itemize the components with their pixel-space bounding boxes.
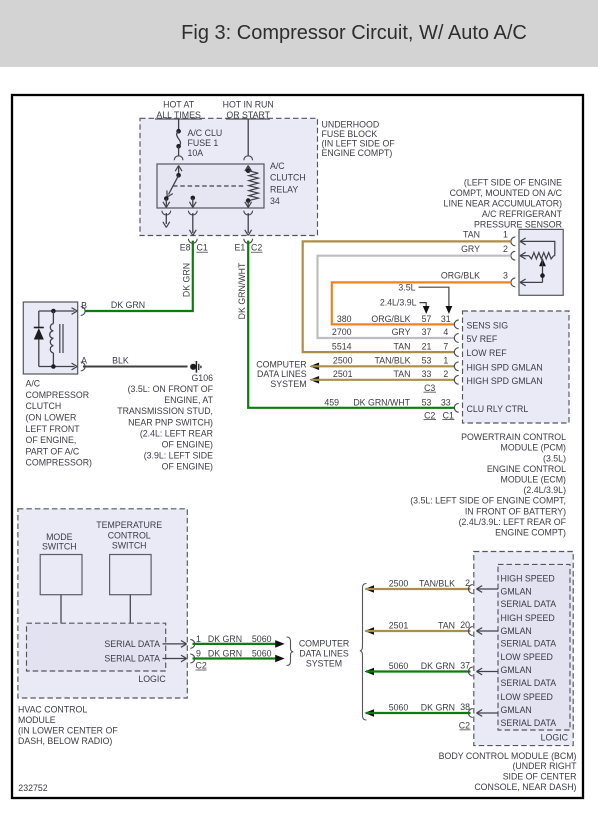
svg-text:BODY CONTROL MODULE (BCM): BODY CONTROL MODULE (BCM) xyxy=(439,751,577,761)
svg-text:1: 1 xyxy=(503,230,508,240)
svg-text:RELAY: RELAY xyxy=(270,184,298,194)
svg-text:(2.4L: LEFT REAR: (2.4L: LEFT REAR xyxy=(140,428,213,438)
sensor pin1 internal xyxy=(520,241,526,244)
relay NC stub wire xyxy=(165,213,167,224)
sensor resistor zigzag xyxy=(529,253,554,259)
svg-text:A/C: A/C xyxy=(26,379,41,389)
svg-text:5060: 5060 xyxy=(389,703,409,713)
connector cup bcm row 4 xyxy=(468,709,472,718)
svg-text:TAN: TAN xyxy=(438,621,455,631)
svg-text:HOT AT: HOT AT xyxy=(163,99,195,109)
svg-text:C2: C2 xyxy=(459,721,470,731)
A/C refrigerant pressure sensor box xyxy=(519,229,563,295)
svg-text:TAN/BLK: TAN/BLK xyxy=(374,356,410,366)
svg-text:ALL TIMES: ALL TIMES xyxy=(156,110,201,120)
diode CR1 xyxy=(34,327,44,329)
svg-text:34: 34 xyxy=(270,196,280,206)
svg-text:SWITCH: SWITCH xyxy=(42,542,77,552)
wire 5060 DK GRN bcm row 3 xyxy=(365,668,375,676)
connector cup hvac pin9 xyxy=(190,654,194,663)
svg-text:5514: 5514 xyxy=(332,341,352,351)
svg-text:BLK: BLK xyxy=(112,355,129,365)
svg-text:3: 3 xyxy=(503,271,508,281)
svg-text:DK GRN: DK GRN xyxy=(208,649,242,659)
svg-text:GMLAN: GMLAN xyxy=(501,665,532,675)
svg-text:OF ENGINE,: OF ENGINE, xyxy=(26,435,77,445)
svg-text:LOW REF: LOW REF xyxy=(467,348,508,358)
svg-text:2501: 2501 xyxy=(333,369,353,379)
relay coil bottom lead xyxy=(247,201,249,208)
svg-text:2700: 2700 xyxy=(332,327,352,337)
svg-text:33: 33 xyxy=(441,397,451,407)
svg-text:Fig 3: Compressor Circuit, W/: Fig 3: Compressor Circuit, W/ Auto A/C xyxy=(181,22,527,44)
svg-text:OF ENGINE): OF ENGINE) xyxy=(162,462,213,472)
title banner xyxy=(0,0,598,67)
bcm internal arrow row 4 xyxy=(477,713,483,716)
svg-text:CLUTCH: CLUTCH xyxy=(26,401,62,411)
svg-text:GMLAN: GMLAN xyxy=(501,705,532,715)
connector cup hvac pin1 xyxy=(190,640,194,649)
svg-text:37: 37 xyxy=(422,327,432,337)
connector cup sensor pin3 xyxy=(511,278,515,287)
relay switch common junction xyxy=(176,173,181,178)
svg-text:(3.9L: LEFT SIDE: (3.9L: LEFT SIDE xyxy=(144,451,213,461)
svg-text:PRESSURE SENSOR: PRESSURE SENSOR xyxy=(474,220,562,230)
svg-text:(3.5L: LEFT SIDE OF ENGINE COM: (3.5L: LEFT SIDE OF ENGINE COMPT, xyxy=(410,496,566,506)
svg-text:SERIAL DATA: SERIAL DATA xyxy=(501,718,557,728)
connector cup SENS SIG xyxy=(454,320,458,329)
relay box A/C CLUTCH RELAY 34 xyxy=(157,164,264,208)
svg-text:SERIAL DATA: SERIAL DATA xyxy=(501,599,557,609)
wire hot-at-all-times feed xyxy=(178,119,180,131)
svg-text:2500: 2500 xyxy=(333,356,353,366)
svg-text:GRY: GRY xyxy=(392,327,411,337)
connector cup HIGH SPD GMLAN 1 xyxy=(454,362,458,371)
svg-text:HIGH SPD GMLAN: HIGH SPD GMLAN xyxy=(467,376,543,386)
wire relay coil to E1 xyxy=(247,213,249,233)
wire ORG/BLK sensor to PCM xyxy=(332,282,511,324)
svg-text:FUSE BLOCK: FUSE BLOCK xyxy=(322,129,378,139)
sensor resistor xyxy=(520,256,526,259)
svg-text:IN FRONT OF BATTERY): IN FRONT OF BATTERY) xyxy=(465,506,566,516)
svg-text:POWERTRAIN CONTROL: POWERTRAIN CONTROL xyxy=(461,432,566,442)
svg-text:NEAR PNP SWITCH): NEAR PNP SWITCH) xyxy=(128,417,213,427)
svg-text:10A: 10A xyxy=(188,148,204,158)
underhood fuse block box xyxy=(140,118,318,235)
svg-text:HIGH SPEED: HIGH SPEED xyxy=(501,573,555,583)
clutch top junction xyxy=(51,309,56,314)
svg-text:SYSTEM: SYSTEM xyxy=(306,659,342,669)
svg-text:1: 1 xyxy=(196,634,201,644)
svg-text:(IN LEFT SIDE OF: (IN LEFT SIDE OF xyxy=(322,139,396,149)
wire TAN/BLK 2500 xyxy=(310,363,320,371)
svg-text:UNDERHOOD: UNDERHOOD xyxy=(322,120,380,130)
svg-text:CLU RLY CTRL: CLU RLY CTRL xyxy=(467,404,529,414)
svg-text:TAN: TAN xyxy=(463,230,480,240)
wire 5060 DK GRN bcm row 4 xyxy=(365,709,375,717)
svg-text:ORG/BLK: ORG/BLK xyxy=(371,314,410,324)
svg-text:COMPRESSOR: COMPRESSOR xyxy=(26,390,90,400)
svg-text:DASH, BELOW RADIO): DASH, BELOW RADIO) xyxy=(18,736,112,746)
svg-text:ENGINE CONTROL: ENGINE CONTROL xyxy=(487,464,566,474)
diode CR1 lead top xyxy=(38,311,40,328)
brace left bcm xyxy=(360,584,367,721)
sensor pin3 internal xyxy=(520,282,526,285)
svg-text:DK GRN/WHT: DK GRN/WHT xyxy=(237,262,247,319)
svg-text:2: 2 xyxy=(443,369,448,379)
relay NC contact lead xyxy=(165,199,167,208)
svg-text:DK GRN/WHT: DK GRN/WHT xyxy=(353,397,410,407)
relay coil top junction xyxy=(246,168,251,173)
connector cup sensor pin2 xyxy=(511,251,515,260)
svg-text:SERIAL DATA: SERIAL DATA xyxy=(501,678,557,688)
svg-text:ENGINE COMPT): ENGINE COMPT) xyxy=(322,148,393,158)
svg-text:C2: C2 xyxy=(196,661,207,671)
brace right hvac xyxy=(287,637,294,666)
svg-text:LOW SPEED: LOW SPEED xyxy=(501,652,553,662)
svg-text:E8: E8 xyxy=(180,243,191,253)
svg-text:B: B xyxy=(81,300,87,310)
svg-text:CONTROL: CONTROL xyxy=(108,530,151,540)
svg-text:(2.4L/3.9L: LEFT REAR OF: (2.4L/3.9L: LEFT REAR OF xyxy=(459,517,567,527)
HVAC module box xyxy=(18,509,187,698)
connector cup fuse-to-relay xyxy=(174,156,183,160)
svg-text:3.5L: 3.5L xyxy=(398,282,415,292)
HVAC logic box xyxy=(27,623,166,671)
connector cup relay coil exit xyxy=(244,211,253,215)
A/C compressor clutch box xyxy=(23,302,77,374)
svg-text:2500: 2500 xyxy=(389,579,409,589)
svg-text:LOW SPEED: LOW SPEED xyxy=(501,692,553,702)
svg-text:DK GRN: DK GRN xyxy=(421,703,455,713)
svg-text:PART OF A/C: PART OF A/C xyxy=(26,446,80,456)
connector cup bcm row 1 xyxy=(468,585,472,594)
svg-text:53: 53 xyxy=(422,397,432,407)
clutch coil xyxy=(50,324,54,353)
connector cup HIGH SPD GMLAN 2 xyxy=(454,375,458,384)
diode CR1 lead bottom xyxy=(38,340,40,367)
svg-text:232752: 232752 xyxy=(18,783,47,793)
svg-text:MODULE: MODULE xyxy=(18,715,56,725)
svg-text:9: 9 xyxy=(196,649,201,659)
svg-text:C1: C1 xyxy=(197,243,208,253)
temperature control switch box xyxy=(110,555,152,595)
relay 30 terminal arrow xyxy=(175,166,178,172)
underline ALL TIMES xyxy=(155,118,202,120)
clutch internal bottom wire xyxy=(39,366,75,368)
svg-text:C1: C1 xyxy=(443,410,454,420)
svg-text:(2.4L/3.9L): (2.4L/3.9L) xyxy=(523,485,566,495)
hvac serial line 1 xyxy=(163,643,186,645)
wire DK GRN 5060 hvac 2 xyxy=(193,657,277,659)
svg-text:COMPT, MOUNTED ON A/C: COMPT, MOUNTED ON A/C xyxy=(450,188,563,198)
mode switch box xyxy=(40,555,82,595)
wire GRY sensor to PCM xyxy=(318,256,511,338)
svg-text:GMLAN: GMLAN xyxy=(501,586,532,596)
svg-text:E1: E1 xyxy=(235,243,246,253)
wire mode switch to logic xyxy=(60,595,62,624)
svg-text:HVAC CONTROL: HVAC CONTROL xyxy=(18,704,87,714)
svg-text:SERIAL DATA: SERIAL DATA xyxy=(104,654,160,664)
wire 2501 TAN bcm row 2 xyxy=(365,627,375,635)
svg-text:(LEFT SIDE OF ENGINE: (LEFT SIDE OF ENGINE xyxy=(464,177,562,187)
svg-text:SERIAL DATA: SERIAL DATA xyxy=(501,639,557,649)
wire DK GRN/WHT vertical E1 to PCM xyxy=(248,241,455,408)
svg-text:A/C REFRIGERANT: A/C REFRIGERANT xyxy=(482,209,563,219)
svg-text:LOGIC: LOGIC xyxy=(541,733,569,743)
wire hot-in-run feed xyxy=(247,119,249,157)
relay actuation dashed link xyxy=(173,185,246,187)
connector cup 5V REF xyxy=(454,334,458,343)
svg-text:DK GRN: DK GRN xyxy=(111,300,145,310)
clutch coil core xyxy=(59,324,61,353)
svg-text:2501: 2501 xyxy=(389,621,409,631)
svg-text:MODULE (PCM): MODULE (PCM) xyxy=(501,443,567,453)
svg-text:21: 21 xyxy=(422,341,432,351)
relay coil xyxy=(248,171,258,201)
relay NC contact xyxy=(164,196,169,201)
svg-text:5V REF: 5V REF xyxy=(467,334,498,344)
svg-text:DK GRN: DK GRN xyxy=(182,263,192,297)
svg-text:LOGIC: LOGIC xyxy=(138,674,166,684)
wire 2500 TAN/BLK bcm row 1 xyxy=(365,585,375,593)
svg-text:33: 33 xyxy=(422,369,432,379)
ground G106 xyxy=(190,364,196,370)
svg-text:ORG/BLK: ORG/BLK xyxy=(441,271,480,281)
svg-text:CONSOLE, NEAR DASH): CONSOLE, NEAR DASH) xyxy=(474,782,576,792)
svg-text:G106: G106 xyxy=(191,373,213,383)
clutch bottom junction xyxy=(51,364,56,369)
svg-text:TAN: TAN xyxy=(394,341,411,351)
svg-text:CLUTCH: CLUTCH xyxy=(270,173,306,183)
wire temp switch to logic xyxy=(129,595,131,624)
svg-text:DK GRN: DK GRN xyxy=(208,634,242,644)
svg-text:SYSTEM: SYSTEM xyxy=(270,379,306,389)
svg-text:C2: C2 xyxy=(251,243,262,253)
BCM logic box xyxy=(498,564,570,730)
bcm internal arrow row 1 xyxy=(477,589,483,592)
connector cup sensor pin1 xyxy=(511,237,515,246)
sensor wiper junction xyxy=(540,273,545,278)
hvac serial line 2 xyxy=(163,658,186,660)
sensor wiper xyxy=(539,258,546,266)
svg-text:(3.5L): (3.5L) xyxy=(543,453,566,463)
PCM box xyxy=(463,311,570,423)
svg-text:TEMPERATURE: TEMPERATURE xyxy=(96,520,162,530)
svg-text:GMLAN: GMLAN xyxy=(501,626,532,636)
svg-text:(IN LOWER CENTER OF: (IN LOWER CENTER OF xyxy=(18,726,118,736)
connector cup clutch pin A xyxy=(81,362,85,371)
svg-text:DATA LINES: DATA LINES xyxy=(257,369,307,379)
connector cup LOW REF xyxy=(454,348,458,357)
svg-text:31: 31 xyxy=(441,314,451,324)
underline OR START xyxy=(226,118,270,120)
svg-text:A/C: A/C xyxy=(270,161,285,171)
svg-text:LINE NEAR ACCUMULATOR): LINE NEAR ACCUMULATOR) xyxy=(444,199,563,209)
svg-text:GRY: GRY xyxy=(461,244,480,254)
BCM module box xyxy=(474,552,573,746)
bcm internal arrow row 3 xyxy=(477,672,483,675)
relay NO contact lead xyxy=(192,198,194,208)
svg-text:DATA LINES: DATA LINES xyxy=(299,649,349,659)
svg-text:1: 1 xyxy=(443,356,448,366)
svg-text:HIGH SPEED: HIGH SPEED xyxy=(501,613,555,623)
svg-text:SWITCH: SWITCH xyxy=(112,541,147,551)
wire BLK clutch to ground xyxy=(83,366,188,368)
connector cup relay NC exit xyxy=(162,211,171,215)
svg-text:2: 2 xyxy=(503,244,508,254)
svg-text:OF ENGINE): OF ENGINE) xyxy=(162,440,213,450)
svg-text:SERIAL DATA: SERIAL DATA xyxy=(104,639,160,649)
fuse F1 A/C CLU FUSE 1 10A xyxy=(176,129,181,134)
svg-text:(3.5L: ON FRONT OF: (3.5L: ON FRONT OF xyxy=(128,384,214,394)
svg-text:SENS SIG: SENS SIG xyxy=(467,321,509,331)
wire TAN 2501 xyxy=(310,376,320,384)
wire relay NO to E8 xyxy=(192,213,194,233)
svg-text:OR START: OR START xyxy=(226,110,270,120)
svg-text:HOT IN RUN: HOT IN RUN xyxy=(223,99,274,109)
clutch coil lead bottom xyxy=(52,353,54,367)
svg-text:COMPUTER: COMPUTER xyxy=(256,359,306,369)
svg-text:(UNDER RIGHT: (UNDER RIGHT xyxy=(512,761,577,771)
svg-text:C3: C3 xyxy=(424,383,435,393)
wire DK GRN 5060 hvac 1 xyxy=(193,643,277,645)
svg-text:53: 53 xyxy=(422,356,432,366)
connector cup E8 xyxy=(188,239,197,243)
svg-text:7: 7 xyxy=(443,341,448,351)
svg-text:ENGINE COMPT): ENGINE COMPT) xyxy=(495,528,566,538)
svg-text:TAN/BLK: TAN/BLK xyxy=(419,579,455,589)
svg-text:380: 380 xyxy=(337,314,352,324)
relay switch arm xyxy=(169,175,179,194)
svg-text:4: 4 xyxy=(443,327,448,337)
svg-text:COMPUTER: COMPUTER xyxy=(299,639,349,649)
svg-text:5060: 5060 xyxy=(252,634,272,644)
svg-text:5060: 5060 xyxy=(389,661,409,671)
svg-text:FUSE 1: FUSE 1 xyxy=(188,138,219,148)
svg-text:2.4L/3.9L: 2.4L/3.9L xyxy=(380,298,417,308)
svg-text:A: A xyxy=(81,355,87,365)
svg-text:57: 57 xyxy=(422,314,432,324)
relay coil bottom junction xyxy=(246,198,251,203)
connector cup relay NO exit xyxy=(188,211,197,215)
svg-text:DK GRN: DK GRN xyxy=(421,661,455,671)
svg-text:COMPRESSOR): COMPRESSOR) xyxy=(26,458,93,468)
svg-text:LEFT FRONT: LEFT FRONT xyxy=(26,424,81,434)
svg-text:A/C CLU: A/C CLU xyxy=(188,128,223,138)
svg-text:ENGINE, AT: ENGINE, AT xyxy=(164,395,213,405)
svg-text:(ON LOWER: (ON LOWER xyxy=(26,413,77,423)
svg-text:TRANSMISSION STUD,: TRANSMISSION STUD, xyxy=(117,406,213,416)
svg-text:HIGH SPD GMLAN: HIGH SPD GMLAN xyxy=(467,362,543,372)
svg-text:SIDE OF CENTER: SIDE OF CENTER xyxy=(503,772,577,782)
relay coil top arrow xyxy=(245,166,248,172)
bcm internal arrow row 2 xyxy=(477,631,483,634)
svg-text:459: 459 xyxy=(324,397,339,407)
connector cup clutch pin B xyxy=(81,307,85,316)
svg-text:MODE: MODE xyxy=(46,532,73,542)
clutch coil lead top xyxy=(52,311,54,324)
connector cup CLU RLY CTRL xyxy=(454,403,458,412)
wire DK GRN vertical E8 to clutch xyxy=(85,241,193,311)
svg-text:C2: C2 xyxy=(424,410,435,420)
svg-text:5060: 5060 xyxy=(252,649,272,659)
svg-text:TAN: TAN xyxy=(394,369,411,379)
clutch internal top wire xyxy=(39,310,75,312)
connector cup E1 xyxy=(244,239,253,243)
relay NO contact xyxy=(191,196,196,201)
svg-text:MODULE (ECM): MODULE (ECM) xyxy=(501,475,567,485)
connector cup bcm row 3 xyxy=(468,667,472,676)
connector cup bcm row 2 xyxy=(468,627,472,636)
connector cup feed-to-relay-coil xyxy=(244,156,253,160)
wire TAN sensor to PCM xyxy=(303,241,511,352)
